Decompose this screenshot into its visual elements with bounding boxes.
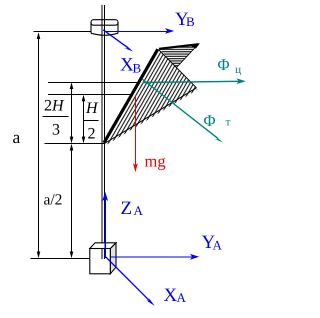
axis Y_B (blue) xyxy=(104,28,174,34)
svg-text:ц: ц xyxy=(235,64,241,76)
dimension 2H/3 xyxy=(71,84,73,143)
svg-text:2H: 2H xyxy=(44,98,65,115)
axis X_B (blue) xyxy=(103,30,133,52)
svg-text:X: X xyxy=(164,285,178,306)
bearing B (top cylinder) xyxy=(91,20,118,36)
svg-text:т: т xyxy=(226,116,231,128)
extension line H/2 level xyxy=(48,94,133,96)
axis Y_A (blue) xyxy=(111,254,200,260)
svg-text:A: A xyxy=(177,290,187,305)
dimension H/2 xyxy=(83,96,85,142)
flap corner blob xyxy=(191,43,200,49)
svg-text:2: 2 xyxy=(88,126,96,143)
force Phi_tau (tangential) teal arrow xyxy=(142,79,223,143)
dimension a xyxy=(38,34,40,257)
bearing A (bottom box cube) xyxy=(90,243,116,274)
svg-text:A: A xyxy=(213,237,223,252)
axis Z_A (blue, along shaft) xyxy=(102,192,108,258)
force mg (red weight arrow) xyxy=(133,96,138,172)
plate bottom edge xyxy=(105,88,197,144)
plate right edge xyxy=(159,50,197,88)
svg-text:B: B xyxy=(133,61,142,76)
svg-text:mg: mg xyxy=(145,152,166,171)
flap right edge xyxy=(177,44,199,68)
plate flap (horizontal hatch) xyxy=(159,44,199,68)
svg-text:Z: Z xyxy=(121,198,133,219)
shaft inside box xyxy=(102,249,104,260)
extension line top (bearing level) xyxy=(33,31,91,33)
svg-text:3: 3 xyxy=(52,122,60,139)
dimension a/2 xyxy=(71,145,73,257)
svg-text:H: H xyxy=(85,100,99,117)
flap thick top edge xyxy=(159,44,199,49)
svg-text:a: a xyxy=(13,127,21,147)
force Phi_c (centripetal) teal arrow xyxy=(143,78,246,84)
svg-text:a/2: a/2 xyxy=(44,192,63,209)
svg-text:A: A xyxy=(134,203,144,218)
plate thick edge xyxy=(104,49,158,143)
extension line plate top level xyxy=(48,82,140,84)
svg-text:Φ: Φ xyxy=(218,55,230,74)
shaft AB (double line) xyxy=(102,5,104,259)
extension line bottom (bearing A level) xyxy=(31,258,90,260)
svg-text:Φ: Φ xyxy=(204,111,216,130)
svg-text:B: B xyxy=(186,14,195,29)
plate: main triangular face (hatched, hatch overshoots bottom edge) xyxy=(104,43,200,145)
axis X_A (blue) xyxy=(106,257,155,306)
extension line plate bottom level xyxy=(45,143,105,145)
